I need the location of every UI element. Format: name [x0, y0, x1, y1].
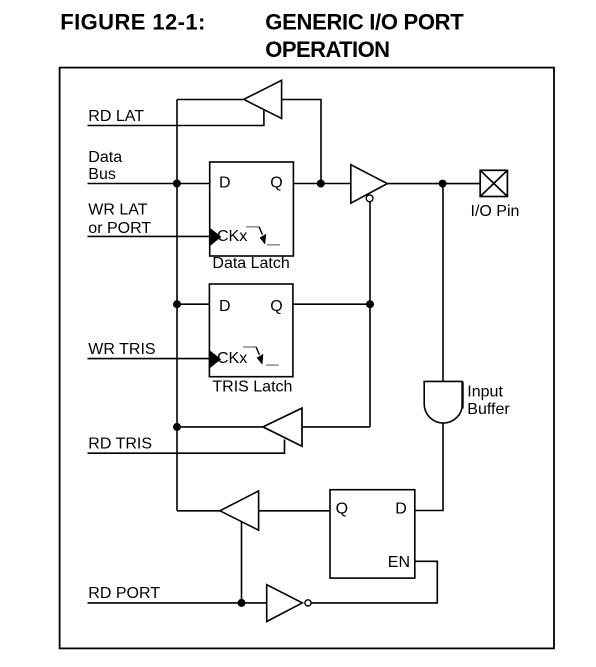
svg-text:Bus: Bus [88, 166, 116, 183]
wire: RD LAT buffer output to bus rail [177, 99, 244, 101]
label: WR LAT or PORT [88, 201, 151, 237]
label: Input Buffer [467, 384, 510, 419]
svg-text:Q: Q [270, 174, 282, 191]
wire: TRIS latch Q [293, 303, 370, 305]
svg-text:RD LAT: RD LAT [88, 108, 144, 125]
data latch clock edge symbol [246, 227, 280, 245]
wire: WR LAT or PORT to data latch CK [88, 235, 210, 237]
wire: EN from RD PORT inverter [311, 561, 437, 603]
svg-text:I/O Pin: I/O Pin [471, 203, 520, 220]
input buffer U9 [424, 381, 462, 423]
svg-text:D: D [395, 501, 407, 518]
svg-text:Q: Q [270, 298, 282, 315]
svg-text:FIGURE 12-1:: FIGURE 12-1: [60, 10, 205, 35]
svg-text:Buffer: Buffer [467, 401, 510, 418]
node: data latch Q / RD LAT junction [317, 180, 325, 188]
wire: output driver to I/O pin [388, 183, 481, 185]
svg-text:D: D [219, 174, 231, 191]
wire: data bus vertical rail [176, 100, 178, 511]
svg-text:GENERIC I/O PORT: GENERIC I/O PORT [265, 10, 464, 35]
node: data bus / data latch D junction [173, 180, 181, 188]
svg-text:EN: EN [388, 554, 410, 571]
label: Data Bus [88, 149, 122, 183]
node: bus rail / TRIS D junction [173, 300, 181, 308]
TRIS latch clock wedge [209, 351, 220, 368]
wire: latch D from pin via input buffer [415, 423, 443, 510]
svg-text:RD TRIS: RD TRIS [88, 435, 152, 452]
svg-text:Data: Data [88, 149, 122, 166]
svg-text:WR TRIS: WR TRIS [88, 341, 155, 358]
svg-text:OPERATION: OPERATION [265, 37, 389, 62]
wire: RD TRIS line with enable tap [88, 440, 285, 454]
node: RD PORT / read buffer enable junction [238, 599, 246, 607]
svg-text:TRIS Latch: TRIS Latch [212, 379, 292, 396]
wire: bus rail to TRIS latch D [177, 303, 209, 305]
wire: RD PORT line [88, 602, 267, 604]
svg-text:CKx: CKx [217, 228, 247, 245]
tri-state buffer U6 (RD PORT read) [220, 491, 259, 530]
output driver U2 [351, 165, 388, 204]
wire: read buffer enable from RD PORT [241, 522, 243, 603]
svg-text:RD PORT: RD PORT [88, 585, 160, 602]
wire: RD TRIS buffer output to bus rail [177, 426, 263, 428]
input latch U7 [330, 490, 415, 578]
node: bus rail / RD TRIS junction [173, 423, 181, 431]
inverter U8 (RD PORT strobe) [267, 585, 311, 622]
node: TRIS Q / driver enable junction [366, 300, 374, 308]
svg-text:WR LAT: WR LAT [88, 201, 147, 218]
I/O pin pad [480, 170, 507, 196]
svg-text:Q: Q [336, 501, 348, 518]
data latch U3 [210, 162, 294, 256]
tri-state buffer U5 (RD TRIS read) [263, 408, 302, 446]
wire: input buffer top to pin node [442, 184, 444, 382]
node: I/O pin / input path junction [439, 180, 447, 188]
wire: bus rail to RD PORT read buffer output [177, 510, 220, 512]
TRIS latch U4 [209, 284, 293, 377]
svg-text:CKx: CKx [217, 350, 247, 367]
wire: read buffer input from latch Q [259, 510, 330, 512]
wire: output driver enable from TRIS [369, 202, 371, 427]
wire: WR TRIS to TRIS latch CK [88, 358, 210, 360]
svg-text:Input: Input [467, 384, 503, 401]
data latch clock wedge [210, 228, 221, 245]
wire: RD LAT line with enable tap [88, 109, 264, 126]
wire: RD LAT buffer input from Q line [282, 100, 322, 184]
TRIS latch clock edge symbol [243, 347, 279, 365]
svg-text:or PORT: or PORT [88, 220, 151, 237]
wire: Data Bus to data latch D [88, 183, 210, 185]
wire: data latch Q to output driver [293, 183, 351, 185]
tri-state buffer U1 (RD LAT read) [244, 80, 282, 118]
svg-text:Data Latch: Data Latch [212, 255, 289, 272]
svg-text:D: D [219, 298, 231, 315]
wire: RD TRIS buffer input [302, 426, 370, 428]
